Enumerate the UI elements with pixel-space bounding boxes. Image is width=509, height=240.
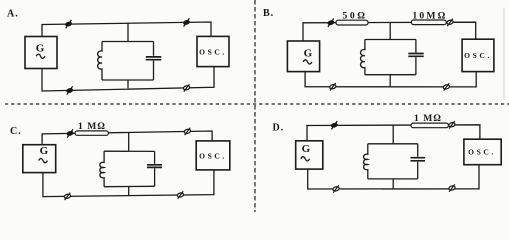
svg-text:B.: B. — [263, 8, 274, 19]
svg-text:G: G — [36, 42, 45, 54]
svg-text:G: G — [304, 47, 313, 59]
svg-text:A.: A. — [7, 9, 19, 20]
svg-text:50Ω: 50Ω — [342, 10, 367, 21]
svg-text:1 MΩ: 1 MΩ — [78, 121, 106, 132]
svg-text:OSC.: OSC. — [199, 47, 227, 56]
svg-text:G: G — [40, 145, 49, 157]
svg-text:G: G — [302, 143, 311, 155]
svg-text:C.: C. — [10, 126, 22, 137]
svg-text:10MΩ: 10MΩ — [412, 10, 447, 21]
svg-text:OSC.: OSC. — [464, 51, 492, 60]
svg-text:OSC.: OSC. — [199, 151, 227, 160]
svg-text:1 MΩ: 1 MΩ — [414, 113, 442, 124]
svg-text:OSC.: OSC. — [468, 148, 496, 157]
svg-text:D.: D. — [273, 123, 285, 134]
